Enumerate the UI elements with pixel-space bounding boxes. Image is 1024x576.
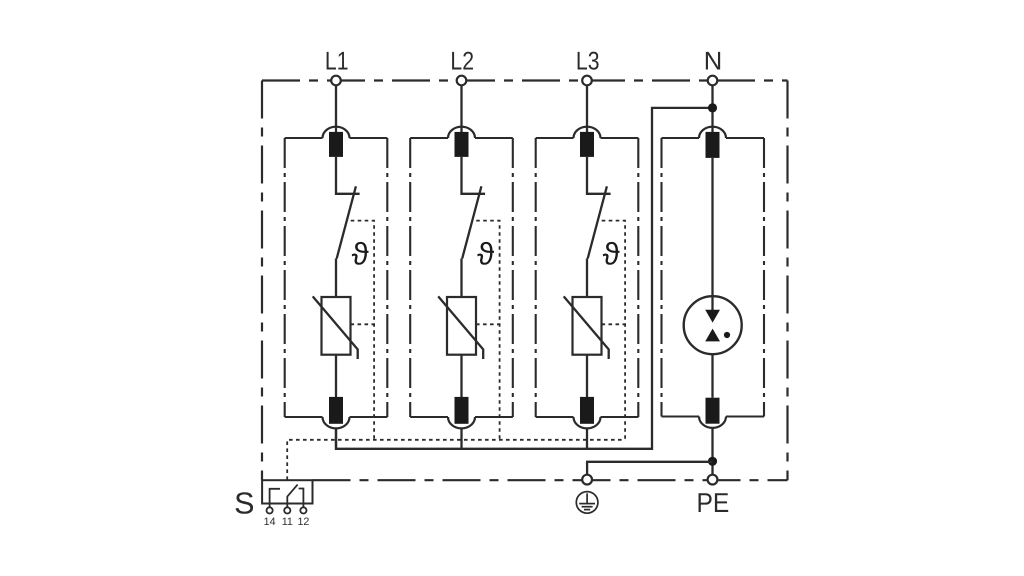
varistor L3 diagonal stroke bbox=[564, 296, 609, 359]
terminal contact block top L3 bbox=[580, 132, 594, 157]
svg-text:ϑ: ϑ bbox=[352, 236, 369, 271]
plug-in contact arc top L3 bbox=[574, 127, 601, 138]
terminal circle L2 bbox=[457, 76, 467, 86]
wire L1 varistor to bottom contact bbox=[335, 355, 337, 397]
wire N top contact to spark gap bbox=[711, 158, 713, 312]
terminal stub and circle 14 bbox=[269, 504, 271, 508]
svg-text:ϑ: ϑ bbox=[477, 236, 494, 271]
terminal contact block top N bbox=[706, 132, 720, 158]
plug-in contact arc top L2 bbox=[448, 127, 475, 138]
wire L3 switch to varistor bbox=[586, 259, 588, 298]
module boundary dash-dot box L2 bbox=[410, 138, 513, 417]
svg-text:12: 12 bbox=[297, 516, 309, 528]
svg-text:S: S bbox=[234, 486, 254, 520]
wire L2 bottom contact to bus bbox=[460, 428, 462, 448]
protective earth symbol bbox=[576, 492, 598, 514]
junction node N bottom to PE bbox=[708, 457, 717, 466]
varistor L2 diagonal stroke bbox=[438, 296, 483, 359]
svg-text:14: 14 bbox=[264, 516, 276, 528]
thermal disconnector switch blade L3 bbox=[588, 186, 607, 258]
terminal circle L1 bbox=[331, 76, 341, 86]
wire L2 switch to varistor bbox=[460, 259, 462, 298]
wire L3 top contact to disconnector fixed contact bbox=[587, 157, 611, 194]
plug-in contact arc bottom N bbox=[699, 417, 726, 428]
svg-text:L1: L1 bbox=[325, 48, 349, 76]
thermal link dotted boundary L2 bbox=[476, 221, 500, 440]
dotted signalling line from thermal disconnectors to contact S bbox=[287, 440, 625, 480]
spark gap upper electrode triangle bbox=[705, 310, 720, 323]
wire N bottom contact to PE terminal bbox=[711, 428, 713, 475]
remote signalling contact box S bbox=[262, 480, 312, 503]
terminal contact block bottom L2 bbox=[455, 397, 469, 424]
varistor L3 body bbox=[573, 297, 602, 355]
terminal circle PE bbox=[708, 475, 718, 485]
spark gap gas-filled indicator dot bbox=[724, 332, 730, 338]
wire N terminal to top contact bbox=[711, 86, 713, 134]
outer dashed enclosure border bbox=[262, 81, 788, 481]
terminal contact block top L2 bbox=[455, 132, 469, 157]
plug-in contact arc bottom L1 bbox=[323, 417, 350, 428]
wire L1 terminal to top contact bbox=[335, 86, 337, 134]
wire N spark gap to bottom contact bbox=[711, 340, 713, 398]
plug-in contact arc top N bbox=[699, 127, 726, 138]
svg-text:N: N bbox=[704, 48, 722, 76]
thermal link dotted boundary L1 bbox=[351, 221, 375, 440]
wire earth terminal to PE junction bbox=[587, 462, 712, 475]
plug-in contact arc bottom L2 bbox=[448, 417, 475, 428]
terminal circle N bbox=[708, 76, 718, 86]
plug-in contact arc top L1 bbox=[323, 127, 350, 138]
varistor L1 diagonal stroke bbox=[313, 296, 358, 359]
wire L3 bottom contact to bus bbox=[586, 428, 588, 448]
terminal stub and circle 11 bbox=[286, 504, 288, 508]
terminal contact block bottom L3 bbox=[580, 397, 594, 424]
terminal contact block bottom N bbox=[706, 398, 720, 424]
thermal link dotted boundary L3 bbox=[602, 221, 626, 440]
svg-text:L2: L2 bbox=[450, 48, 474, 76]
svg-text:L3: L3 bbox=[576, 48, 600, 76]
terminal contact block top L1 bbox=[329, 132, 343, 157]
spark gap circle N-PE bbox=[684, 296, 742, 354]
module boundary dash-dot box L1 bbox=[285, 138, 388, 417]
wire L1 bottom contact to bus bbox=[335, 428, 337, 448]
svg-text:11: 11 bbox=[282, 516, 293, 528]
contact 12 normally-closed leg bbox=[299, 489, 304, 504]
spark gap lower electrode triangle bbox=[705, 329, 720, 342]
thermal disconnector switch blade L2 bbox=[462, 186, 481, 258]
wire L1 top contact to disconnector fixed contact bbox=[336, 157, 360, 194]
wire L2 terminal to top contact bbox=[460, 86, 462, 134]
terminal circle earthing bbox=[582, 475, 592, 485]
terminal circle L3 bbox=[582, 76, 592, 86]
contact 14 normally-open leg bbox=[270, 489, 280, 504]
contact 11 common with switch blade bbox=[287, 485, 297, 504]
wire L1 switch to varistor bbox=[335, 259, 337, 298]
wire L3 terminal to top contact bbox=[586, 86, 588, 134]
thermal disconnector switch blade L1 bbox=[337, 186, 356, 258]
svg-text:ϑ: ϑ bbox=[603, 236, 620, 271]
wire spark gap stub inside circle top bbox=[711, 296, 713, 310]
wire L2 top contact to disconnector fixed contact bbox=[462, 157, 486, 194]
module boundary dash-dot box N bbox=[662, 138, 765, 417]
wire L3 varistor to bottom contact bbox=[586, 355, 588, 397]
svg-text:PE: PE bbox=[697, 487, 730, 518]
plug-in contact arc bottom L3 bbox=[574, 417, 601, 428]
varistor L2 body bbox=[447, 297, 476, 355]
wire L2 varistor to bottom contact bbox=[460, 355, 462, 397]
terminal contact block bottom L1 bbox=[329, 397, 343, 424]
terminal stub and circle 12 bbox=[302, 504, 304, 508]
wire bottom bus from L1/L2/L3 to N top junction bbox=[336, 108, 713, 449]
junction node N top bbox=[708, 103, 717, 112]
varistor L1 body bbox=[322, 297, 351, 355]
module boundary dash-dot box L3 bbox=[536, 138, 639, 417]
